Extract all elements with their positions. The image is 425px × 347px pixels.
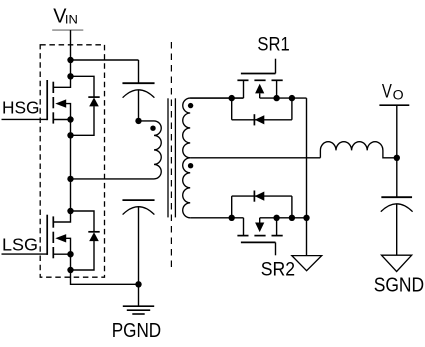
svg-text:HSG: HSG bbox=[2, 97, 40, 117]
svg-text:SR2: SR2 bbox=[261, 259, 295, 281]
svg-text:LSG: LSG bbox=[2, 234, 38, 254]
svg-text:SR1: SR1 bbox=[257, 34, 289, 56]
svg-text:PGND: PGND bbox=[112, 320, 162, 342]
svg-text:IN: IN bbox=[65, 12, 78, 26]
svg-text:O: O bbox=[393, 87, 404, 102]
svg-text:V: V bbox=[382, 81, 392, 102]
svg-text:SGND: SGND bbox=[374, 274, 425, 296]
